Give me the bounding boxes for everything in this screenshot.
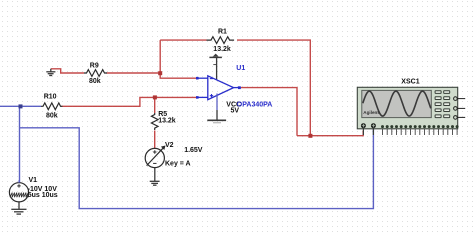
svg-text:80k: 80k [46, 112, 58, 119]
svg-text:80k: 80k [89, 78, 101, 85]
svg-text:5us 10us: 5us 10us [28, 192, 58, 199]
svg-text:13.2k: 13.2k [158, 117, 176, 124]
svg-text:R9: R9 [90, 62, 99, 69]
svg-text:XSC1: XSC1 [401, 79, 419, 86]
svg-text:R1: R1 [218, 29, 227, 36]
svg-text:13.2k: 13.2k [213, 46, 231, 53]
svg-text:1.65V: 1.65V [184, 147, 203, 154]
svg-text:V2: V2 [165, 142, 174, 149]
svg-text:Agilent: Agilent [363, 110, 379, 115]
svg-text:Key = A: Key = A [165, 161, 191, 168]
svg-text:5V: 5V [231, 108, 240, 115]
svg-text:OPA340PA: OPA340PA [237, 101, 273, 108]
svg-text:U1: U1 [236, 65, 245, 72]
svg-text:V1: V1 [29, 177, 38, 184]
svg-text:R10: R10 [44, 93, 57, 100]
